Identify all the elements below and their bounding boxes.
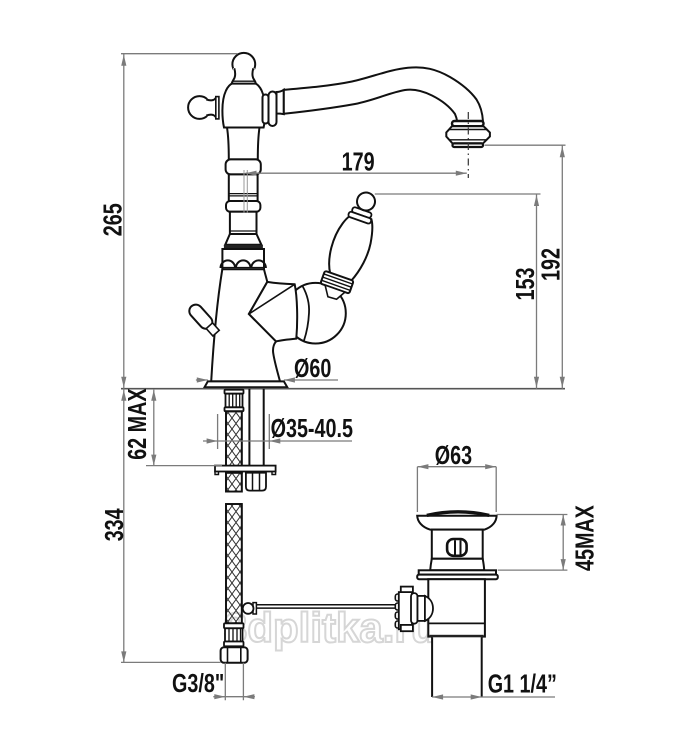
top ball finial [232, 53, 255, 76]
pop-up knob [187, 302, 221, 338]
arrows hole dia [207, 438, 218, 443]
hose below washer [226, 473, 242, 492]
spout tube [284, 67, 483, 121]
lever teardrop [323, 210, 379, 284]
bonnet cone [249, 282, 297, 342]
knurled nut caps [401, 587, 413, 593]
arrows 63 [417, 464, 428, 469]
drain body [428, 579, 485, 636]
svg-text:192: 192 [536, 248, 565, 281]
column ring line [230, 230, 257, 232]
svg-text:G3/8": G3/8" [172, 668, 224, 697]
mounting washer [215, 466, 276, 472]
bead arches [221, 260, 266, 268]
column flare [225, 234, 261, 245]
ext line handle top [375, 193, 541, 195]
barrel lower flare [430, 559, 484, 571]
ext lines g38 [225, 663, 243, 700]
arrows 45max [561, 515, 566, 526]
rod collar [411, 593, 418, 624]
arrows g114 [432, 694, 443, 699]
lever ball [355, 190, 378, 213]
arrows 192 [560, 146, 565, 157]
drain body dark band [430, 635, 484, 638]
faucet body cone [211, 269, 280, 381]
svg-text:45MAX: 45MAX [570, 505, 599, 571]
overflow slot [447, 539, 467, 556]
hose ferrule ribs [226, 394, 243, 408]
ext lines drain dia [417, 467, 496, 512]
left handle flare [216, 97, 219, 119]
spout centerline [467, 112, 469, 178]
bonnet fan line [249, 284, 295, 314]
bead collar [222, 249, 264, 269]
lever group [315, 187, 386, 304]
arrows 62max [151, 390, 156, 401]
arrows g38 [214, 694, 225, 699]
drain flange upper [419, 570, 496, 574]
rod ball joint [243, 603, 254, 614]
valve cross body [222, 84, 265, 128]
left handle neck [206, 97, 216, 119]
svg-text:62 MAX: 62 MAX [122, 388, 151, 460]
arrows 60 [197, 377, 208, 382]
braided hose upper [226, 411, 242, 472]
ext line faucet top [121, 53, 238, 55]
knurl teeth [395, 594, 400, 628]
column lower section [230, 212, 257, 234]
dim g38 line [213, 696, 255, 698]
hose ferrule cap [225, 390, 244, 394]
drain funnel [417, 516, 496, 530]
spout outlet bottom cup [453, 143, 484, 147]
svg-text:Ø63: Ø63 [435, 440, 472, 469]
rod dome [425, 596, 433, 621]
valve sphere [285, 283, 346, 344]
svg-text:Ø35-40.5: Ø35-40.5 [271, 413, 353, 442]
svg-text:G1 1/4”: G1 1/4” [488, 669, 557, 698]
pop-up rod [256, 605, 397, 608]
arrows 153 [534, 195, 539, 206]
lever neck rings [351, 207, 372, 219]
ext line spout outlet [485, 144, 566, 146]
mounting stud [249, 389, 263, 473]
spout flare [277, 90, 284, 114]
arrows 265 [121, 55, 126, 66]
hose ferrule cap 2 [225, 407, 244, 411]
dark band [224, 245, 263, 249]
drain flange lower [417, 575, 498, 580]
column ring lines [229, 194, 258, 196]
dim 45max line [562, 515, 564, 571]
cartridge hidden lines [244, 170, 247, 213]
svg-text:334: 334 [99, 508, 128, 541]
hose end ferrule [224, 623, 244, 628]
column bulge ring 1 [226, 159, 261, 174]
dim 62max line [153, 390, 155, 466]
ext lines 45max [497, 515, 568, 571]
dim 60 leader [196, 379, 338, 381]
ext lines hole dia [218, 414, 270, 449]
spout collar ring 1 [263, 95, 269, 124]
dim 334 line [123, 389, 125, 663]
left handle ball [188, 96, 211, 119]
dim 63 line [417, 466, 496, 468]
spout outlet top band [452, 121, 484, 126]
spout outlet bulge [446, 126, 490, 143]
dim 192 line [561, 145, 563, 389]
spout column neck [227, 128, 260, 160]
finial neck flare [232, 68, 256, 83]
svg-text:265: 265 [98, 203, 127, 236]
dim 265 line [123, 54, 125, 389]
dimension texts [98, 147, 599, 698]
base flange [204, 381, 287, 387]
arrows 334 [121, 390, 126, 401]
column mid section [229, 174, 258, 201]
counter line [121, 388, 565, 390]
outlet bulge lines [449, 130, 488, 140]
lever collar ribs [320, 271, 353, 294]
spout collar ring 2 [269, 92, 277, 127]
svg-text:179: 179 [342, 147, 375, 176]
svg-text:Ø60: Ø60 [294, 353, 331, 382]
dim g114 line [432, 696, 555, 698]
drain plug dome [427, 512, 489, 516]
rod clevis [253, 603, 256, 614]
rod cap [418, 596, 425, 621]
drain tailpipe [432, 637, 482, 697]
braided hose lower [226, 504, 242, 623]
arrows 179 [246, 171, 257, 176]
column bulge ring 2 [226, 201, 260, 212]
sphere split line [303, 286, 310, 341]
ext line washer [146, 465, 222, 467]
drain barrel [432, 530, 483, 559]
hose nut G3/8 [221, 647, 248, 663]
dim 179 line [246, 172, 467, 174]
knurled nut body [399, 592, 412, 629]
stud nut [246, 473, 266, 491]
dim 153 line [536, 194, 538, 389]
dim line hole dia [203, 440, 352, 442]
ext line hose end [121, 661, 221, 663]
